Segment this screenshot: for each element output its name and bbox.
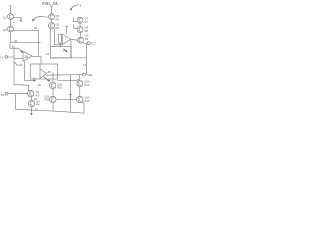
- wire from IN run to Q18: [14, 85, 29, 91]
- resistor box at op-amp input: [59, 35, 62, 44]
- junction tick: [52, 72, 54, 75]
- svg-text:32: 32: [19, 63, 23, 67]
- wire Q12 down to Q14: [79, 33, 81, 37]
- svg-text:R13: R13: [84, 99, 89, 103]
- wire lower rail segment: [58, 80, 78, 82]
- label 32 lead: [14, 62, 19, 66]
- svg-text:R11: R11: [45, 98, 50, 102]
- svg-text:R10: R10: [57, 86, 62, 90]
- transistor Q12: [77, 27, 83, 33]
- amplifier inside box 28: [40, 69, 47, 79]
- svg-text:16: 16: [34, 26, 38, 30]
- op-amp 22: [63, 34, 71, 44]
- svg-text:10: 10: [1, 93, 5, 97]
- wire box 24 bottom / feedback run: [51, 57, 87, 59]
- junction tick above emitter bus: [69, 94, 71, 99]
- wire long vertical to bottom: [70, 75, 72, 112]
- svg-text:OUT: OUT: [91, 42, 96, 46]
- svg-text:40: 40: [14, 39, 18, 43]
- wire hook from Q1 with down arrow terminal: [13, 18, 21, 21]
- wire feedback left leg with arrow: [25, 62, 34, 81]
- transistor Q18: [28, 90, 34, 96]
- svg-text:24: 24: [46, 52, 50, 56]
- arrow through box 28: [44, 77, 49, 82]
- box 28: [31, 64, 58, 79]
- box 24: [51, 47, 72, 58]
- svg-text:R12: R12: [84, 83, 89, 87]
- svg-text:14: 14: [83, 63, 87, 67]
- terminal OUT: [87, 42, 90, 45]
- wire Q24 to Q28: [79, 87, 81, 97]
- wire from bus B down and right: [10, 43, 19, 49]
- wire supply bus to Q24: [79, 75, 81, 81]
- svg-text:R6: R6: [56, 26, 60, 30]
- terminal VEE: [83, 73, 86, 76]
- wire Q26 down to bus: [52, 103, 54, 111]
- wire between Q1 and Q2: [10, 19, 12, 26]
- wire stub left of Q10: [74, 18, 77, 22]
- svg-text:R7: R7: [85, 20, 89, 24]
- transistor Q26: [50, 96, 56, 102]
- wire vertical from bus A to node at triangle output: [38, 31, 40, 57]
- arrow into amplifier 26 input: [19, 48, 22, 51]
- junction dot: [77, 79, 78, 80]
- wire output feedback drop: [70, 40, 72, 58]
- wire emitter bus bottom: [56, 99, 77, 101]
- wire from IN terminal: [8, 56, 14, 58]
- wire Q22 to Q26: [52, 89, 54, 97]
- wire down to bottom bus: [15, 94, 17, 110]
- wire lower input of op-amp 22: [55, 43, 63, 45]
- transistor Q14: [78, 37, 84, 43]
- svg-text:Q7: Q7: [85, 16, 89, 20]
- svg-text:8: 8: [80, 3, 82, 7]
- transistor Q6: [49, 23, 55, 29]
- svg-text:26: 26: [24, 55, 28, 59]
- wire input vertical run: [13, 48, 15, 84]
- lead arrow 18 top right: [71, 5, 78, 9]
- transistor Q28: [77, 96, 83, 102]
- wire supply bus to Q22: [52, 75, 54, 82]
- lead arrow 12: [33, 16, 43, 19]
- wire Q20 to bottom bus: [31, 107, 33, 111]
- transistor Q2: [8, 26, 14, 32]
- svg-text:VEE: VEE: [87, 73, 93, 77]
- wire Q2 collector down to node B bus: [10, 32, 12, 43]
- wire Q6 emitter down to box 24: [49, 29, 51, 47]
- svg-text:FIG. 3A: FIG. 3A: [42, 1, 58, 6]
- svg-text:Q8: Q8: [85, 26, 89, 30]
- svg-text:30: 30: [12, 45, 16, 49]
- wire Q6 collector down: [54, 29, 56, 43]
- svg-text:Q13: Q13: [84, 96, 90, 100]
- op-amp 26: [23, 51, 32, 61]
- svg-text:R8: R8: [85, 29, 89, 33]
- transistor Q20: [28, 100, 34, 106]
- svg-text:42: 42: [35, 108, 38, 112]
- transistor Q22: [50, 82, 56, 88]
- svg-text:R3: R3: [36, 93, 40, 97]
- wire stub left of Q12: [74, 24, 77, 28]
- wire to amplifier 26 lower input: [14, 58, 23, 60]
- wire op-amp 22 output: [71, 38, 78, 41]
- svg-text:Q12: Q12: [84, 80, 90, 84]
- wire amplifier 26 output to box 28: [32, 57, 41, 65]
- wire output feedback vertical 14: [86, 44, 88, 75]
- transistor Q24: [77, 81, 83, 87]
- wire Q18 to Q20: [31, 97, 33, 101]
- svg-text:R9: R9: [85, 37, 89, 41]
- wire to OUT terminal: [83, 42, 87, 44]
- transistor Q10: [77, 17, 83, 23]
- wire top stub above Q5: [50, 6, 53, 14]
- svg-text:IN: IN: [0, 56, 3, 60]
- wire top input of op-amp 22: [66, 26, 68, 34]
- wire negative supply bus: [47, 74, 83, 77]
- svg-text:38: 38: [34, 97, 37, 101]
- svg-text:R4: R4: [36, 103, 40, 107]
- svg-text:36: 36: [38, 83, 41, 87]
- wire bus A: [13, 30, 38, 32]
- wire top stub above Q1: [10, 6, 12, 14]
- svg-text:Q2: Q2: [3, 28, 7, 32]
- supply arrow below bus: [31, 111, 33, 114]
- wire Q10 to Q12: [79, 23, 81, 26]
- svg-text:Q6: Q6: [56, 22, 60, 26]
- svg-text:Q1: Q1: [3, 16, 7, 20]
- wire resistor to box 24: [59, 43, 61, 46]
- wire Q28 emitter to right leg: [82, 102, 84, 113]
- svg-text:34: 34: [33, 76, 36, 80]
- svg-text:R5: R5: [56, 17, 60, 21]
- wire stub left of Q5: [44, 16, 48, 18]
- wire Q5 to Q6: [51, 20, 53, 23]
- svg-text:Q5: Q5: [56, 14, 60, 18]
- svg-text:28: 28: [48, 70, 52, 74]
- transistor Q5: [49, 14, 55, 20]
- wire from terminal 10 to Q18 base: [8, 93, 28, 95]
- wire into internal amplifier: [39, 64, 41, 69]
- current source inside box 24: [63, 49, 67, 52]
- wire bus B: [11, 42, 41, 44]
- bottom bus: [16, 109, 85, 113]
- transistor Q1: [8, 14, 14, 20]
